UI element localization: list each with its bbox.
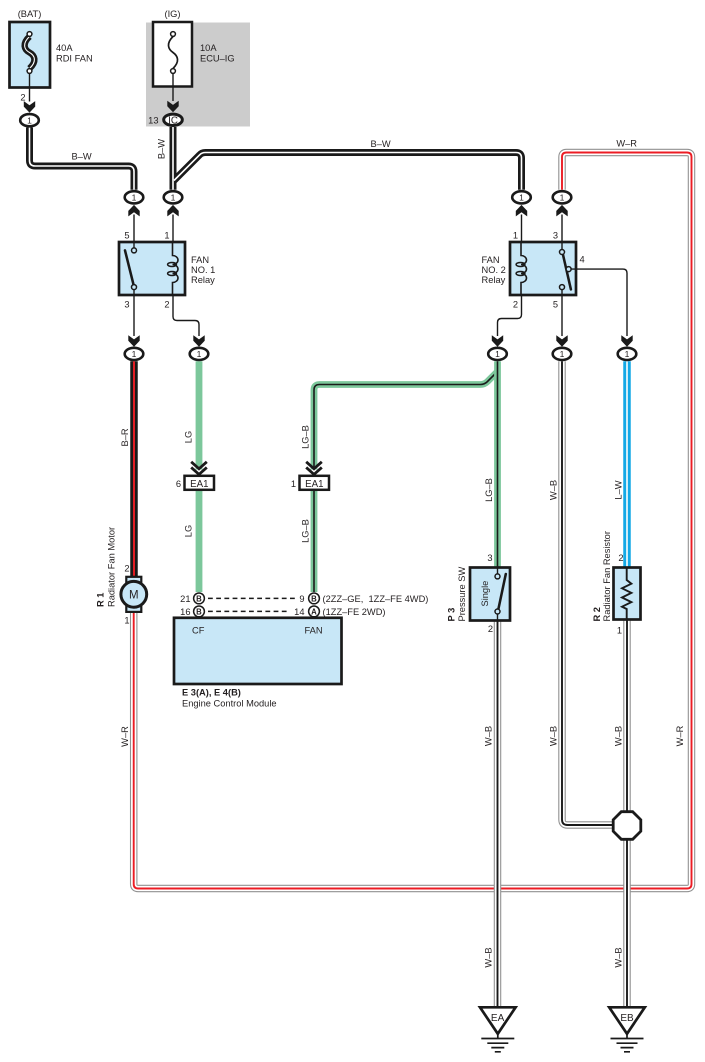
svg-text:B–W: B–W bbox=[72, 151, 92, 161]
svg-text:1: 1 bbox=[519, 193, 524, 203]
svg-text:W–B: W–B bbox=[549, 726, 559, 746]
svg-text:2: 2 bbox=[124, 564, 129, 574]
ECM engine control module box bbox=[174, 618, 342, 709]
relay1 pin2 lead jog to oval bbox=[173, 295, 199, 336]
svg-text:B–W: B–W bbox=[371, 139, 391, 149]
relay2 switch lever bbox=[563, 254, 571, 290]
svg-text:ECU–IG: ECU–IG bbox=[200, 54, 235, 64]
connector oval IC bbox=[164, 114, 183, 126]
wire W-B relay2 pin5 oval to junction octagon bbox=[562, 361, 614, 825]
up arrow into oval (relay2 pin1) bbox=[516, 205, 527, 217]
connector oval 1 below relay1 pin2 bbox=[190, 348, 209, 360]
relay1 switch lever bbox=[125, 250, 134, 284]
connector arrow into IC oval bbox=[167, 101, 178, 113]
svg-text:W–B: W–B bbox=[549, 480, 559, 500]
connector arrow into oval below relay1 pin3 bbox=[128, 335, 139, 347]
svg-text:EB: EB bbox=[620, 1013, 634, 1024]
connector arrow into oval below relay1 pin2 bbox=[193, 335, 204, 347]
svg-text:W–R: W–R bbox=[120, 726, 130, 747]
svg-text:16: 16 bbox=[180, 607, 190, 617]
svg-text:LG–B: LG–B bbox=[301, 425, 311, 449]
svg-text:1: 1 bbox=[132, 349, 137, 359]
gray zone behind IG fuse bbox=[146, 23, 250, 127]
svg-text:Relay: Relay bbox=[482, 275, 506, 285]
relay FAN NO.2 bbox=[482, 231, 585, 310]
svg-text:1: 1 bbox=[124, 616, 129, 626]
connector oval 1 below relay2 pin2 bbox=[488, 348, 507, 360]
svg-text:W–R: W–R bbox=[616, 139, 637, 149]
relay FAN NO.1 bbox=[119, 231, 215, 310]
fuse 40A RDI FAN (fusible link) bbox=[10, 9, 93, 103]
svg-text:B: B bbox=[196, 607, 202, 616]
up arrow into oval (relay1 pin5) bbox=[128, 205, 139, 217]
svg-text:CF: CF bbox=[192, 626, 205, 636]
connector oval 1 below relay2 pin4 bbox=[618, 348, 637, 360]
svg-text:(1ZZ–FE 2WD): (1ZZ–FE 2WD) bbox=[323, 607, 386, 617]
svg-text:1: 1 bbox=[27, 115, 32, 125]
ground EB bbox=[609, 1007, 645, 1052]
wire B-W from IC oval down to relay1 pin1 oval, with branch to relay2 pin1 oval bbox=[173, 127, 522, 190]
wire LG-B branch to EA1 and ECM terminal 9 bbox=[314, 372, 498, 593]
connector arrow into oval below relay2 pin2 bbox=[492, 335, 503, 347]
fuse 10A ECU-IG bbox=[148, 9, 234, 126]
svg-text:3: 3 bbox=[487, 553, 492, 563]
svg-text:LG: LG bbox=[184, 431, 194, 443]
svg-text:1: 1 bbox=[513, 231, 518, 241]
relay2 pin5 lead to oval bbox=[561, 295, 563, 336]
connector oval 1 above relay1 pin1 bbox=[164, 191, 183, 203]
EA1 connector (pin 1) bbox=[291, 462, 329, 490]
junction octagon bbox=[613, 812, 641, 840]
EA1 connector (pin 6) bbox=[176, 462, 214, 490]
svg-text:IC: IC bbox=[168, 115, 178, 126]
svg-text:2: 2 bbox=[618, 553, 623, 563]
svg-text:Radiator Fan Motor: Radiator Fan Motor bbox=[107, 527, 117, 607]
svg-text:5: 5 bbox=[124, 231, 129, 241]
connector arrow into oval below relay2 pin4 bbox=[621, 335, 632, 347]
wire W-B pressure switch pin2 to ground EA bbox=[494, 621, 502, 1008]
svg-text:P 3: P 3 bbox=[446, 608, 456, 622]
svg-text:21: 21 bbox=[180, 594, 190, 604]
svg-text:10A: 10A bbox=[200, 43, 217, 53]
svg-text:FAN: FAN bbox=[305, 626, 323, 636]
svg-text:Radiator Fan Resistor: Radiator Fan Resistor bbox=[602, 531, 612, 621]
wire LG-B relay2 pin2 oval to pressure switch pin3 bbox=[494, 361, 501, 567]
svg-text:R 2: R 2 bbox=[592, 607, 602, 621]
up arrow into oval (relay2 pin3) bbox=[556, 205, 567, 217]
svg-text:6: 6 bbox=[176, 479, 181, 489]
svg-text:NO. 1: NO. 1 bbox=[191, 265, 215, 275]
svg-text:1: 1 bbox=[132, 193, 137, 203]
wire B-R relay1 pin3 oval to motor bbox=[130, 361, 138, 577]
svg-text:W–R: W–R bbox=[675, 725, 685, 746]
svg-text:W–B: W–B bbox=[614, 947, 624, 967]
svg-text:FAN: FAN bbox=[482, 255, 500, 265]
pressure switch P3 bbox=[446, 553, 510, 634]
relay1 pin3 lead to oval bbox=[133, 295, 135, 336]
svg-text:3: 3 bbox=[124, 300, 129, 310]
connector oval 1 above relay2 pin3 bbox=[553, 191, 572, 203]
svg-text:(BAT): (BAT) bbox=[18, 9, 42, 19]
svg-text:R 1: R 1 bbox=[95, 593, 105, 607]
svg-text:2: 2 bbox=[513, 300, 518, 310]
svg-text:Pressure SW: Pressure SW bbox=[457, 567, 467, 622]
svg-text:1: 1 bbox=[625, 349, 630, 359]
relay2 pin4 lead to oval bbox=[571, 269, 627, 336]
wire B-W from battery fuse oval to relay1 pin5 oval bbox=[30, 128, 135, 190]
svg-text:3: 3 bbox=[553, 231, 558, 241]
svg-text:EA: EA bbox=[491, 1013, 505, 1024]
connector oval 1 (BAT feed) bbox=[20, 114, 39, 126]
svg-text:1: 1 bbox=[560, 193, 565, 203]
relay1 coil bbox=[173, 242, 179, 295]
svg-text:1: 1 bbox=[171, 193, 176, 203]
svg-text:Engine Control Module: Engine Control Module bbox=[182, 698, 277, 708]
svg-text:1: 1 bbox=[560, 349, 565, 359]
svg-text:B: B bbox=[196, 594, 202, 603]
svg-text:NO. 2: NO. 2 bbox=[482, 265, 506, 275]
svg-text:13: 13 bbox=[148, 116, 158, 126]
relay2 coil bbox=[521, 242, 527, 295]
svg-text:Single: Single bbox=[480, 581, 490, 607]
svg-text:1: 1 bbox=[291, 479, 296, 489]
svg-text:LG–B: LG–B bbox=[301, 519, 311, 543]
svg-text:RDI FAN: RDI FAN bbox=[56, 54, 93, 64]
wire LG relay1 pin2 oval to ECM terminal 21 bbox=[196, 361, 203, 469]
up arrow into oval (relay1 pin1) bbox=[167, 205, 178, 217]
svg-text:W–B: W–B bbox=[484, 947, 494, 967]
svg-text:40A: 40A bbox=[56, 43, 73, 53]
connector oval 1 above relay1 pin5 bbox=[125, 191, 144, 203]
svg-text:1: 1 bbox=[495, 349, 500, 359]
svg-text:B–W: B–W bbox=[157, 139, 167, 159]
svg-text:2: 2 bbox=[488, 624, 493, 634]
connector oval 1 above relay2 pin1 bbox=[512, 191, 531, 203]
connector oval 1 below relay1 pin3 bbox=[125, 348, 144, 360]
svg-text:B: B bbox=[311, 594, 317, 603]
svg-text:14: 14 bbox=[294, 607, 304, 617]
svg-text:1: 1 bbox=[617, 626, 622, 636]
svg-text:EA1: EA1 bbox=[190, 479, 208, 490]
wire W-R main loop (motor pin1 to relay2 pin3 oval via bottom and right side) bbox=[134, 153, 692, 889]
svg-text:Relay: Relay bbox=[191, 275, 215, 285]
svg-text:B–R: B–R bbox=[120, 428, 130, 446]
svg-text:W–B: W–B bbox=[614, 726, 624, 746]
svg-text:M: M bbox=[129, 590, 139, 602]
svg-text:2: 2 bbox=[20, 93, 25, 103]
wire W-B resistor pin1 through octagon junction to ground EB bbox=[623, 619, 631, 1008]
svg-text:A: A bbox=[311, 607, 317, 616]
svg-text:4: 4 bbox=[580, 255, 585, 265]
svg-text:LG–B: LG–B bbox=[484, 478, 494, 502]
wire L-W relay2 pin4 oval to resistor pin2 bbox=[623, 361, 631, 567]
svg-text:5: 5 bbox=[553, 300, 558, 310]
svg-text:(2ZZ–GE, 1ZZ–FE 4WD): (2ZZ–GE, 1ZZ–FE 4WD) bbox=[323, 594, 429, 604]
svg-text:(IG): (IG) bbox=[164, 9, 180, 19]
connector oval 1 below relay2 pin5 bbox=[553, 348, 572, 360]
svg-text:1: 1 bbox=[197, 349, 202, 359]
motor R1 radiator fan motor bbox=[95, 527, 146, 626]
svg-text:W–B: W–B bbox=[484, 726, 494, 746]
svg-text:2: 2 bbox=[164, 300, 169, 310]
relay2 pin2 lead jog to oval bbox=[498, 295, 522, 336]
svg-text:LG: LG bbox=[184, 525, 194, 537]
svg-text:E 3(A), E 4(B): E 3(A), E 4(B) bbox=[182, 688, 241, 698]
connector arrow into oval below relay2 pin5 bbox=[556, 335, 567, 347]
svg-text:EA1: EA1 bbox=[305, 479, 323, 490]
svg-text:9: 9 bbox=[299, 594, 304, 604]
connector arrow into BAT oval bbox=[24, 101, 35, 113]
ECM terminal circles and dashes bbox=[180, 593, 428, 617]
resistor R2 radiator fan resistor bbox=[592, 531, 641, 635]
svg-text:1: 1 bbox=[164, 231, 169, 241]
svg-text:L–W: L–W bbox=[614, 480, 624, 499]
svg-text:FAN: FAN bbox=[191, 255, 209, 265]
ground EA bbox=[480, 1007, 516, 1052]
